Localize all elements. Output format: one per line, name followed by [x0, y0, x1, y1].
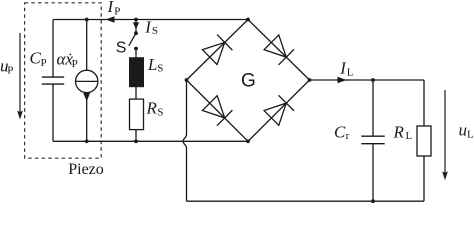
- voltage arrow uP: [19, 33, 21, 113]
- diode D4 bottom-right: [264, 95, 294, 125]
- current arrow IS: [133, 22, 139, 29]
- wire bottom inner: [53, 140, 248, 142]
- node bridge bottom: [246, 139, 250, 143]
- svg-text:P: P: [72, 58, 78, 70]
- wire bottom long: [187, 200, 425, 202]
- piezo dashed enclosure: [25, 3, 102, 158]
- svg-text:S: S: [157, 62, 163, 74]
- diode D1 top-left: [202, 35, 232, 65]
- bridge edge top-right: [248, 20, 310, 81]
- svg-text:R: R: [146, 99, 158, 118]
- wire RS to bottom: [135, 130, 137, 142]
- svg-text:Piezo: Piezo: [68, 161, 104, 178]
- svg-text:u: u: [459, 121, 468, 140]
- svg-text:P: P: [114, 5, 120, 17]
- current arrow IL: [338, 77, 347, 83]
- bridge edge bottom-right: [248, 80, 310, 141]
- svg-text:I: I: [107, 0, 115, 16]
- inductor LS: [130, 58, 144, 87]
- wire right output: [310, 79, 425, 81]
- svg-text:G: G: [241, 70, 256, 91]
- diode D3 bottom-left: [202, 95, 232, 125]
- svg-text:C: C: [334, 123, 346, 142]
- svg-text:r: r: [346, 130, 350, 142]
- capacitor Cr: [361, 135, 384, 137]
- node Cr top: [371, 78, 375, 82]
- resistor RS: [130, 99, 144, 130]
- bridge edge top-left: [187, 20, 249, 81]
- resistor RL: [417, 126, 431, 156]
- node bridge right: [308, 78, 312, 82]
- wire top: [53, 19, 248, 21]
- svg-text:L: L: [147, 55, 157, 74]
- svg-text:L: L: [347, 67, 354, 79]
- wire capacitor branch: [52, 20, 54, 78]
- node Cr bottom: [371, 199, 375, 203]
- svg-text:L: L: [406, 130, 413, 142]
- svg-text:S: S: [157, 107, 163, 119]
- bridge edge bottom-left: [187, 80, 249, 141]
- wire RL branch top: [423, 80, 425, 126]
- wire switch to LS: [135, 49, 137, 58]
- wire source branch top: [86, 20, 88, 71]
- svg-text:S: S: [152, 25, 158, 37]
- svg-text:S: S: [116, 40, 127, 57]
- wire RL branch bottom: [423, 156, 425, 201]
- node bottom source: [85, 139, 89, 143]
- wire LS to RS: [135, 87, 137, 99]
- node top switch: [134, 18, 138, 22]
- switch S: [134, 31, 138, 35]
- svg-text:P: P: [7, 65, 13, 77]
- node RS bottom: [134, 139, 138, 143]
- current source alpha xdot P: [76, 70, 98, 92]
- wire source branch bottom: [86, 93, 88, 142]
- current arrow IP: [106, 16, 115, 22]
- diode D2 top-right: [264, 35, 294, 65]
- wire Cr branch: [372, 80, 374, 136]
- node top source: [85, 18, 89, 22]
- svg-text:P: P: [41, 57, 47, 69]
- svg-text:L: L: [467, 129, 474, 141]
- voltage arrow uL: [444, 90, 446, 174]
- wire bridge left down: [183, 80, 186, 201]
- node bridge top: [246, 18, 250, 22]
- capacitor CP: [42, 76, 64, 78]
- svg-text:R: R: [393, 122, 405, 141]
- wire top of switch: [135, 20, 137, 34]
- node bridge left: [185, 78, 189, 82]
